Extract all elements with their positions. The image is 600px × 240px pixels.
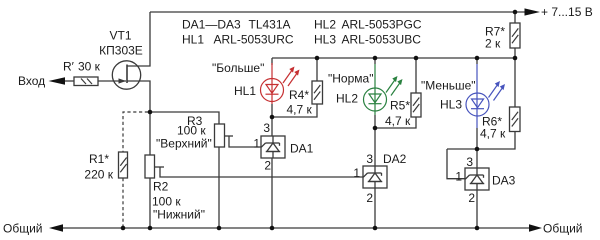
svg-text:КП303Е: КП303Е [99,43,143,57]
node HL2 on rail2 [373,56,378,61]
wire HL3 bottom to node [476,128,478,149]
wire R4 bottom [272,104,317,117]
node R3 bottom [217,226,222,231]
resistor R2 100k trimmer body [145,155,155,178]
svg-text:DA1—DA3: DA1—DA3 [182,18,241,32]
svg-text:HL2: HL2 [314,18,336,32]
shunt regulator DA1 TL431A [261,136,285,158]
svg-text:ARL-5053UBC: ARL-5053UBC [342,33,422,47]
svg-text:"Норма": "Норма" [328,72,373,86]
transistor VT1 КП303Е [112,61,140,89]
svg-text:HL3: HL3 [314,33,336,47]
arrow common right terminal [529,224,542,232]
resistor R7* 2k [510,23,520,48]
wire HL2 bottom to node [374,115,376,128]
LED HL1 (red) [261,63,298,104]
wire R2 bottom [149,178,151,228]
svg-text:30 к: 30 к [78,60,101,74]
node DA3 pin2 bottom [475,226,480,231]
svg-text:DA1: DA1 [290,141,314,155]
wire R2 wiper tap [154,166,164,168]
svg-text:HL3: HL3 [440,98,462,112]
arrow +supply terminal [525,8,541,15]
svg-text:1: 1 [253,137,260,151]
arrow input terminal [49,77,66,84]
wire VT1 source lead [127,81,150,112]
node R2 bottom [148,226,153,231]
svg-text:3: 3 [263,121,270,135]
node DA1 pin2 bottom [270,226,275,231]
node HL3/R6 junction [475,147,480,152]
svg-text:2: 2 [468,191,475,205]
svg-text:3: 3 [366,152,373,166]
node DA2 pin2 bottom [373,226,378,231]
node HL1/R4 junction [270,115,275,120]
wire HL1 top [271,58,273,65]
wire DA1 pin3 [271,117,273,136]
svg-text:R5*: R5* [390,99,410,113]
LED HL2 (green) [364,64,401,115]
node R5 on rail2 [414,56,419,61]
resistor R4* 4.7k [312,81,323,104]
svg-text:R′: R′ [63,60,75,74]
svg-text:DA2: DA2 [383,152,407,166]
wire R3 bottom [218,147,220,228]
wire R7 bottom [514,48,516,58]
wire gate [97,80,126,82]
wire HL2 top [374,58,376,64]
svg-text:VT1: VT1 [109,28,131,42]
svg-text:"Верхний": "Верхний" [156,137,212,151]
svg-text:R4*: R4* [289,88,309,102]
node HL3 on rail2 [475,56,480,61]
svg-text:100 к: 100 к [152,195,181,209]
svg-text:220 к: 220 к [84,167,113,181]
svg-text:2 к: 2 к [485,37,501,51]
wire HL3 top [476,58,478,64]
wire R1 dashed links [123,112,148,226]
resistor R6* 4.7k [510,107,521,132]
svg-text:R2: R2 [153,180,169,194]
wire rail2 [272,57,515,59]
wire input to gate [62,80,74,82]
wire R2 wiper to DA2 pin1 [160,167,363,177]
wire R7 top [514,12,516,23]
shunt regulator DA2 TL431A [363,166,387,188]
svg-text:HL1: HL1 [182,33,204,47]
wire R3 wiper to DA1 pin1 [229,136,261,147]
arrow common left terminal [49,224,63,232]
gate arrowhead of VT1 [119,78,127,83]
wire DA2 pin3 [374,128,376,166]
svg-text:TL431A: TL431A [249,18,291,32]
svg-text:Общий: Общий [543,222,583,236]
svg-text:4,7 к: 4,7 к [287,103,313,117]
wire top rail [150,11,528,13]
node R4 on rail2 [315,56,320,61]
svg-text:+ 7...15 В: + 7...15 В [541,5,593,19]
svg-text:1: 1 [353,166,360,180]
wire DA3 pin3 [476,149,478,168]
svg-text:Общий: Общий [3,222,43,236]
svg-text:"Больше": "Больше" [212,61,264,75]
wire R6 bottom [447,132,515,150]
wire VT1 drain riser [127,12,150,66]
wire to R3 top [150,112,219,124]
resistor R1* 220k [119,152,128,178]
svg-text:100 к: 100 к [177,124,206,138]
wire DA3 pin2 [476,190,478,228]
resistor R' 30k (series input) [74,77,98,86]
wire bottom rail [62,227,529,229]
resistor R5* 4.7k [411,93,421,117]
shunt regulator DA3 TL431A [465,168,489,190]
svg-text:2: 2 [366,191,373,205]
svg-text:2: 2 [264,159,271,173]
svg-text:1: 1 [455,169,462,183]
svg-text:4,7 к: 4,7 к [385,114,411,128]
svg-text:4,7 к: 4,7 к [480,127,506,141]
node source-junction [148,110,153,115]
node R6/R7 on rail2 [513,56,518,61]
svg-text:"Нижний": "Нижний" [153,208,205,222]
svg-text:HL1: HL1 [234,84,256,98]
LED HL3 (blue) [466,64,503,128]
wire DA3 pin1 loop [447,149,465,179]
svg-text:DA3: DA3 [492,174,516,188]
wire R3 wiper tap [224,135,233,137]
node R1 bottom [121,226,126,231]
resistor R3 100k trimmer body [215,124,225,147]
wire R6 top [514,58,516,107]
svg-text:Вход: Вход [18,74,45,88]
wire R5 bottom [375,116,416,128]
svg-text:ARL-5053URC: ARL-5053URC [214,33,294,47]
wire DA1 pin2 [271,158,273,228]
wire DA2 pin2 [374,188,376,228]
svg-text:3: 3 [466,155,473,169]
node HL2/R5 junction [373,126,378,131]
svg-text:R1*: R1* [89,152,109,166]
wire R5 top [415,58,417,93]
wire R2 top [149,112,151,155]
svg-text:ARL-5053PGC: ARL-5053PGC [342,18,422,32]
wire HL1 bottom to node [271,104,273,117]
svg-text:"Меньше": "Меньше" [421,79,476,93]
svg-text:HL2: HL2 [336,92,358,106]
wire R4 top [316,58,318,81]
node R7 top on rail [513,10,518,15]
